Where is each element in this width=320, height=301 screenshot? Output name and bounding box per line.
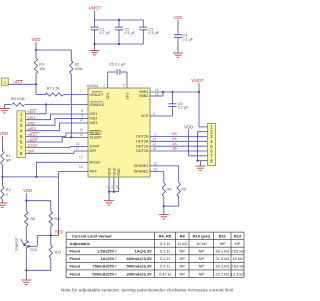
svg-text:2: 2 — [70, 99, 72, 103]
svg-text:9: 9 — [81, 113, 83, 117]
svg-text:22: 22 — [152, 142, 156, 146]
svg-text:CP2: CP2 — [126, 93, 130, 100]
svg-text:100k: 100k — [75, 67, 83, 71]
svg-text:NP: NP — [199, 256, 205, 261]
svg-text:MS1: MS1 — [90, 112, 98, 116]
svg-text:VBB2: VBB2 — [139, 94, 149, 98]
svg-text:7: 7 — [79, 90, 81, 94]
svg-text:NP: NP — [220, 241, 226, 246]
svg-text:NP: NP — [179, 271, 185, 276]
svg-text:NP: NP — [179, 264, 185, 269]
svg-text:10: 10 — [79, 118, 83, 122]
svg-text:R11: R11 — [54, 217, 61, 221]
svg-text:R12: R12 — [55, 251, 62, 255]
svg-text:0.1 µF: 0.1 µF — [178, 106, 189, 110]
svg-text:C5 0.1 µF: C5 0.1 µF — [109, 63, 126, 67]
svg-text:10: 10 — [79, 128, 83, 132]
svg-text:13.3 kΩ: 13.3 kΩ — [231, 271, 245, 276]
svg-text:R8 100k: R8 100k — [11, 97, 25, 101]
svg-text:16: 16 — [79, 156, 83, 160]
svg-text:DIR: DIR — [28, 149, 35, 154]
svg-text:6: 6 — [153, 112, 155, 116]
svg-text:25: 25 — [153, 168, 157, 172]
svg-text:STEP: STEP — [28, 143, 39, 148]
svg-text:R5: R5 — [181, 188, 186, 192]
svg-text:Fixed: Fixed — [70, 249, 81, 254]
svg-text:OUT1A: OUT1A — [136, 144, 149, 148]
svg-text:NP: NP — [6, 158, 12, 162]
svg-text:1A@5V /: 1A@5V / — [100, 256, 117, 261]
svg-text:R12: R12 — [234, 233, 242, 238]
svg-text:REF: REF — [55, 230, 64, 235]
svg-text:20: 20 — [153, 162, 157, 166]
svg-text:NP: NP — [179, 256, 185, 261]
svg-text:MS1: MS1 — [28, 115, 36, 120]
svg-text:R4: R4 — [167, 188, 172, 192]
svg-text:30.1 kΩ: 30.1 kΩ — [215, 249, 229, 254]
svg-text:VCP: VCP — [141, 114, 149, 118]
svg-text:SLEEP: SLEEP — [90, 136, 103, 140]
svg-text:30.1 kΩ: 30.1 kΩ — [215, 264, 229, 269]
svg-text:ENABLE: ENABLE — [90, 103, 105, 107]
svg-text:0.47 Ω: 0.47 Ω — [159, 271, 171, 276]
svg-text:R3: R3 — [6, 188, 11, 192]
svg-text:750mA@5V /: 750mA@5V / — [92, 264, 117, 269]
svg-text:R9: R9 — [39, 63, 44, 67]
svg-text:11 kΩ: 11 kΩ — [177, 241, 187, 246]
svg-text:GND: GND — [108, 167, 112, 175]
svg-text:24: 24 — [110, 185, 114, 189]
svg-text:CP1: CP1 — [106, 93, 110, 100]
svg-text:15k: 15k — [39, 67, 45, 71]
svg-text:22.1 kΩ: 22.1 kΩ — [215, 271, 229, 276]
svg-text:15: 15 — [79, 165, 83, 169]
svg-text:R6: R6 — [180, 233, 186, 238]
svg-text:1B: 1B — [172, 146, 177, 151]
svg-text:DIR: DIR — [90, 149, 97, 153]
svg-text:OUT2A: OUT2A — [136, 140, 149, 144]
svg-text:1: 1 — [4, 79, 6, 84]
svg-text:Adjustable: Adjustable — [70, 241, 91, 246]
svg-text:NP: NP — [199, 271, 205, 276]
svg-text:VDD: VDD — [173, 15, 182, 20]
svg-text:nFAULT: nFAULT — [90, 93, 104, 97]
svg-text:OUT2B: OUT2B — [136, 135, 149, 139]
svg-text:VDD: VDD — [23, 188, 32, 193]
svg-text:VMOT: VMOT — [191, 78, 204, 83]
svg-text:0.1 Ω: 0.1 Ω — [160, 249, 170, 254]
svg-text:500mA@3.3V: 500mA@3.3V — [127, 264, 153, 269]
svg-text:25: 25 — [115, 185, 119, 189]
svg-text:Fixed: Fixed — [70, 256, 81, 261]
svg-text:MS2: MS2 — [90, 117, 98, 121]
svg-text:Fixed: Fixed — [70, 271, 81, 276]
svg-text:21.5 kΩ: 21.5 kΩ — [215, 256, 229, 261]
svg-text:18: 18 — [152, 147, 156, 151]
svg-text:10 kΩ: 10 kΩ — [232, 256, 243, 261]
svg-text:330mA@3.3V: 330mA@3.3V — [127, 271, 153, 276]
svg-text:STEP: STEP — [90, 145, 100, 149]
svg-text:MS2: MS2 — [28, 121, 36, 126]
svg-text:Fixed: Fixed — [70, 264, 81, 269]
svg-text:VDD: VDD — [184, 124, 193, 129]
svg-text:17: 17 — [75, 146, 79, 150]
svg-text:VDD: VDD — [0, 131, 8, 136]
svg-text:Note for adjustable versions:: Note for adjustable versions: turning po… — [61, 288, 234, 293]
svg-text:ROSC: ROSC — [90, 161, 101, 165]
svg-text:A3984: A3984 — [87, 83, 99, 88]
svg-text:0: 0 — [6, 192, 8, 196]
svg-text:R7 1.5k: R7 1.5k — [47, 86, 60, 90]
svg-text:4.7 µF: 4.7 µF — [100, 31, 111, 35]
svg-text:8: 8 — [81, 109, 83, 113]
svg-text:500mA@5V /: 500mA@5V / — [92, 271, 117, 276]
svg-text:MS3: MS3 — [90, 121, 98, 125]
svg-text:R11: R11 — [219, 233, 227, 238]
svg-text:12: 12 — [79, 133, 83, 137]
svg-text:9.53 kΩ: 9.53 kΩ — [231, 249, 245, 254]
svg-text:660mA@3.3V: 660mA@3.3V — [127, 256, 153, 261]
svg-text:SENSE2: SENSE2 — [134, 170, 149, 174]
svg-text:NP: NP — [199, 249, 205, 254]
svg-text:10 kΩ: 10 kΩ — [196, 241, 207, 246]
svg-text:5: 5 — [123, 84, 125, 88]
svg-text:1: 1 — [154, 133, 156, 137]
svg-text:OUT1B: OUT1B — [136, 149, 149, 153]
svg-text:0.2 Ω: 0.2 Ω — [160, 264, 170, 269]
svg-text:GND: GND — [112, 167, 116, 175]
svg-text:9.53 kΩ: 9.53 kΩ — [231, 264, 245, 269]
svg-text:0.1 µF: 0.1 µF — [148, 31, 159, 35]
svg-text:R6: R6 — [30, 217, 35, 221]
svg-text:VDD: VDD — [31, 37, 40, 42]
svg-text:R2: R2 — [75, 63, 80, 67]
svg-text:R10 (pot): R10 (pot) — [193, 233, 211, 238]
svg-text:NP: NP — [179, 249, 185, 254]
svg-text:3: 3 — [103, 84, 105, 88]
svg-text:28: 28 — [155, 92, 159, 96]
svg-text:23: 23 — [105, 185, 109, 189]
svg-text:24: 24 — [152, 137, 156, 141]
svg-text:SENSE1: SENSE1 — [134, 164, 149, 168]
svg-text:0.2 Ω: 0.2 Ω — [160, 256, 170, 261]
svg-text:0.1 µF: 0.1 µF — [125, 31, 136, 35]
svg-text:R4, R5: R4, R5 — [159, 233, 172, 238]
svg-text:1A@3.3V: 1A@3.3V — [135, 249, 153, 254]
svg-text:NP: NP — [235, 241, 241, 246]
svg-text:Current Limit Variant: Current Limit Variant — [72, 233, 112, 238]
svg-text:R10: R10 — [30, 248, 37, 252]
svg-text:1.5A@5V /: 1.5A@5V / — [97, 249, 117, 254]
svg-text:REF: REF — [90, 170, 98, 174]
svg-text:MS3: MS3 — [28, 126, 36, 131]
svg-text:R1: R1 — [6, 154, 11, 158]
svg-text:PAD: PAD — [117, 168, 121, 176]
svg-text:VMOT: VMOT — [89, 6, 102, 11]
svg-text:0.1 µF: 0.1 µF — [183, 37, 194, 41]
svg-text:TRIMPOT: TRIMPOT — [15, 237, 19, 251]
svg-text:NP: NP — [199, 264, 205, 269]
svg-text:0.1 Ω: 0.1 Ω — [160, 241, 170, 246]
svg-text:14: 14 — [75, 142, 79, 146]
